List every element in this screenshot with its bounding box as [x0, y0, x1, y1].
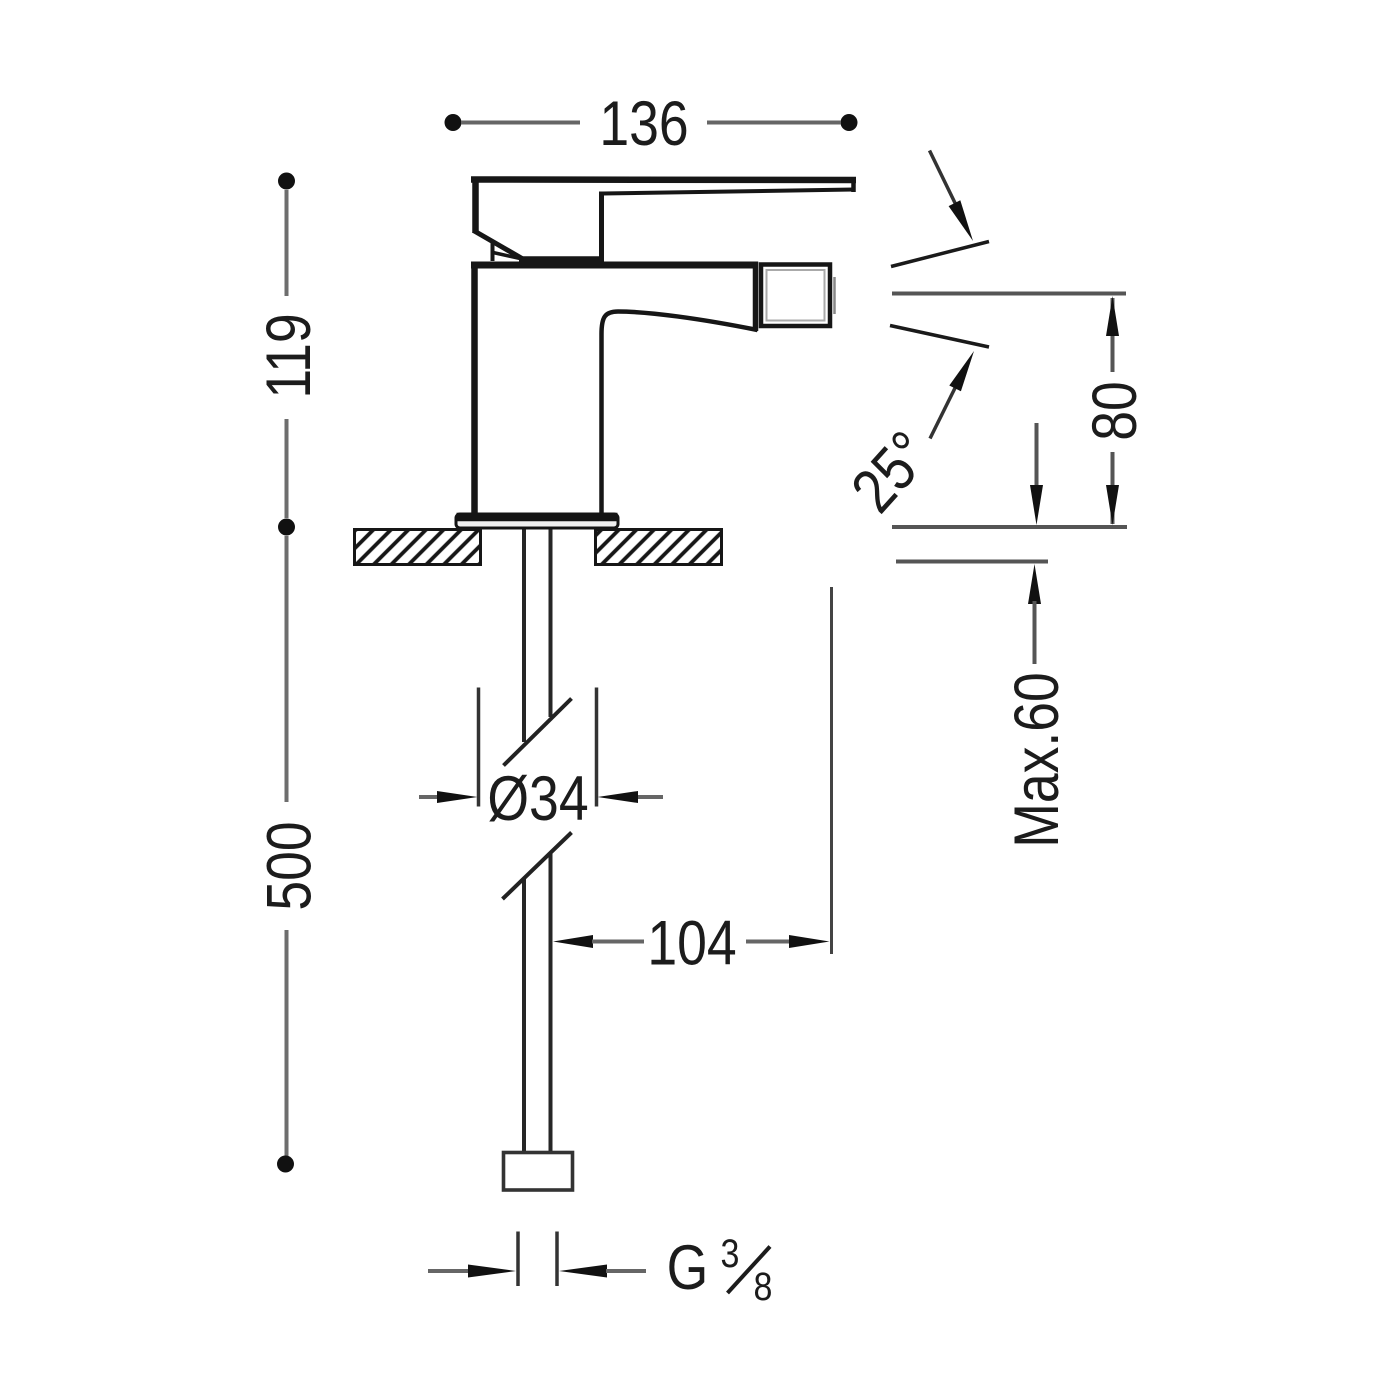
angle arrow lower head — [949, 351, 974, 391]
dimension Max.60 lower arrow — [1028, 564, 1041, 604]
dimension 119 top dot — [278, 173, 295, 190]
dimension D34 right arrow — [635, 795, 663, 799]
thread label fraction slash — [728, 1247, 771, 1294]
dimension 500 line lower segment — [285, 930, 289, 1156]
angle reference line lower — [890, 326, 989, 348]
supply pipe left wall upper — [522, 530, 526, 743]
countertop hatch left — [355, 530, 481, 565]
handle body lower diagonal — [474, 231, 523, 259]
pipe break slash upper — [504, 699, 572, 766]
dimension 104 left arrow — [553, 935, 593, 948]
countertop hatch right — [596, 530, 722, 565]
dimension 119 line lower segment — [285, 419, 289, 518]
svg-text:G: G — [667, 1233, 709, 1303]
dimension 136 right dot — [841, 114, 858, 131]
svg-text:8: 8 — [754, 1263, 773, 1308]
aerator face line — [833, 277, 836, 314]
handle body left edge — [472, 177, 479, 233]
svg-text:3: 3 — [721, 1230, 740, 1275]
faucet lever top edge — [471, 176, 856, 183]
dimension G3/8 left tick — [516, 1232, 520, 1287]
handle body bottom edge — [519, 256, 604, 262]
dimension 136 line right segment — [707, 121, 841, 125]
dimension 136 line left segment — [461, 121, 580, 125]
spout tip reference line vertical — [830, 587, 833, 954]
dimension Max.60 upper arrow — [1035, 423, 1039, 488]
faucet body left edge — [471, 262, 478, 515]
dimension 119 line upper segment — [285, 190, 289, 296]
aerator outer square — [761, 265, 830, 327]
dimension G3/8 right arrow — [559, 1265, 607, 1278]
supply pipe right wall upper — [549, 530, 553, 718]
aerator inner square — [767, 270, 825, 321]
base plate top bar — [457, 513, 618, 522]
dimension 80 lower arrow — [1111, 452, 1115, 524]
dimension 119/500 middle dot — [278, 519, 295, 536]
handle notch diagonal — [493, 253, 527, 261]
countertop top reference line — [892, 525, 1127, 529]
angle reference line upper — [891, 242, 989, 267]
base plate — [456, 514, 618, 528]
dimension D34 left extension line — [477, 688, 481, 807]
outlet level reference line — [892, 292, 1126, 296]
dimension 80 upper arrow — [1111, 298, 1115, 372]
countertop bottom reference line — [896, 560, 1048, 564]
dimension D34 right extension line — [595, 688, 599, 807]
faucet lever underside — [603, 190, 854, 194]
spout end edge — [753, 262, 759, 332]
dimension G3/8 right tick — [555, 1232, 559, 1287]
dimension G3/8 left arrow — [428, 1269, 469, 1273]
spout underside curve — [602, 312, 758, 515]
pipe break slash lower — [503, 833, 572, 900]
handle body right edge — [599, 192, 604, 260]
angle arrow upper head — [949, 200, 973, 241]
faucet lever tip — [851, 178, 856, 192]
svg-text:Ø34: Ø34 — [487, 764, 588, 834]
svg-text:Max.60: Max.60 — [1002, 672, 1072, 848]
svg-text:500: 500 — [254, 821, 324, 910]
svg-text:104: 104 — [647, 908, 736, 978]
svg-text:119: 119 — [254, 313, 324, 398]
svg-text:136: 136 — [599, 89, 688, 159]
angle arrow lower shaft — [930, 386, 956, 439]
dimension 500 line upper segment — [285, 536, 289, 802]
faucet body top edge — [471, 262, 757, 269]
dimension 500 bottom dot — [277, 1156, 294, 1173]
handle notch vertical — [491, 243, 495, 261]
angle arrow upper shaft — [930, 151, 957, 206]
svg-text:80: 80 — [1080, 381, 1150, 441]
dimension 104 right arrow — [746, 940, 790, 944]
supply pipe right wall lower — [549, 853, 553, 1153]
supply pipe left wall lower — [522, 879, 526, 1153]
dimension 136 left dot — [445, 114, 462, 131]
G3/8 connector block — [504, 1153, 573, 1191]
dimension D34 left arrow — [419, 795, 440, 799]
